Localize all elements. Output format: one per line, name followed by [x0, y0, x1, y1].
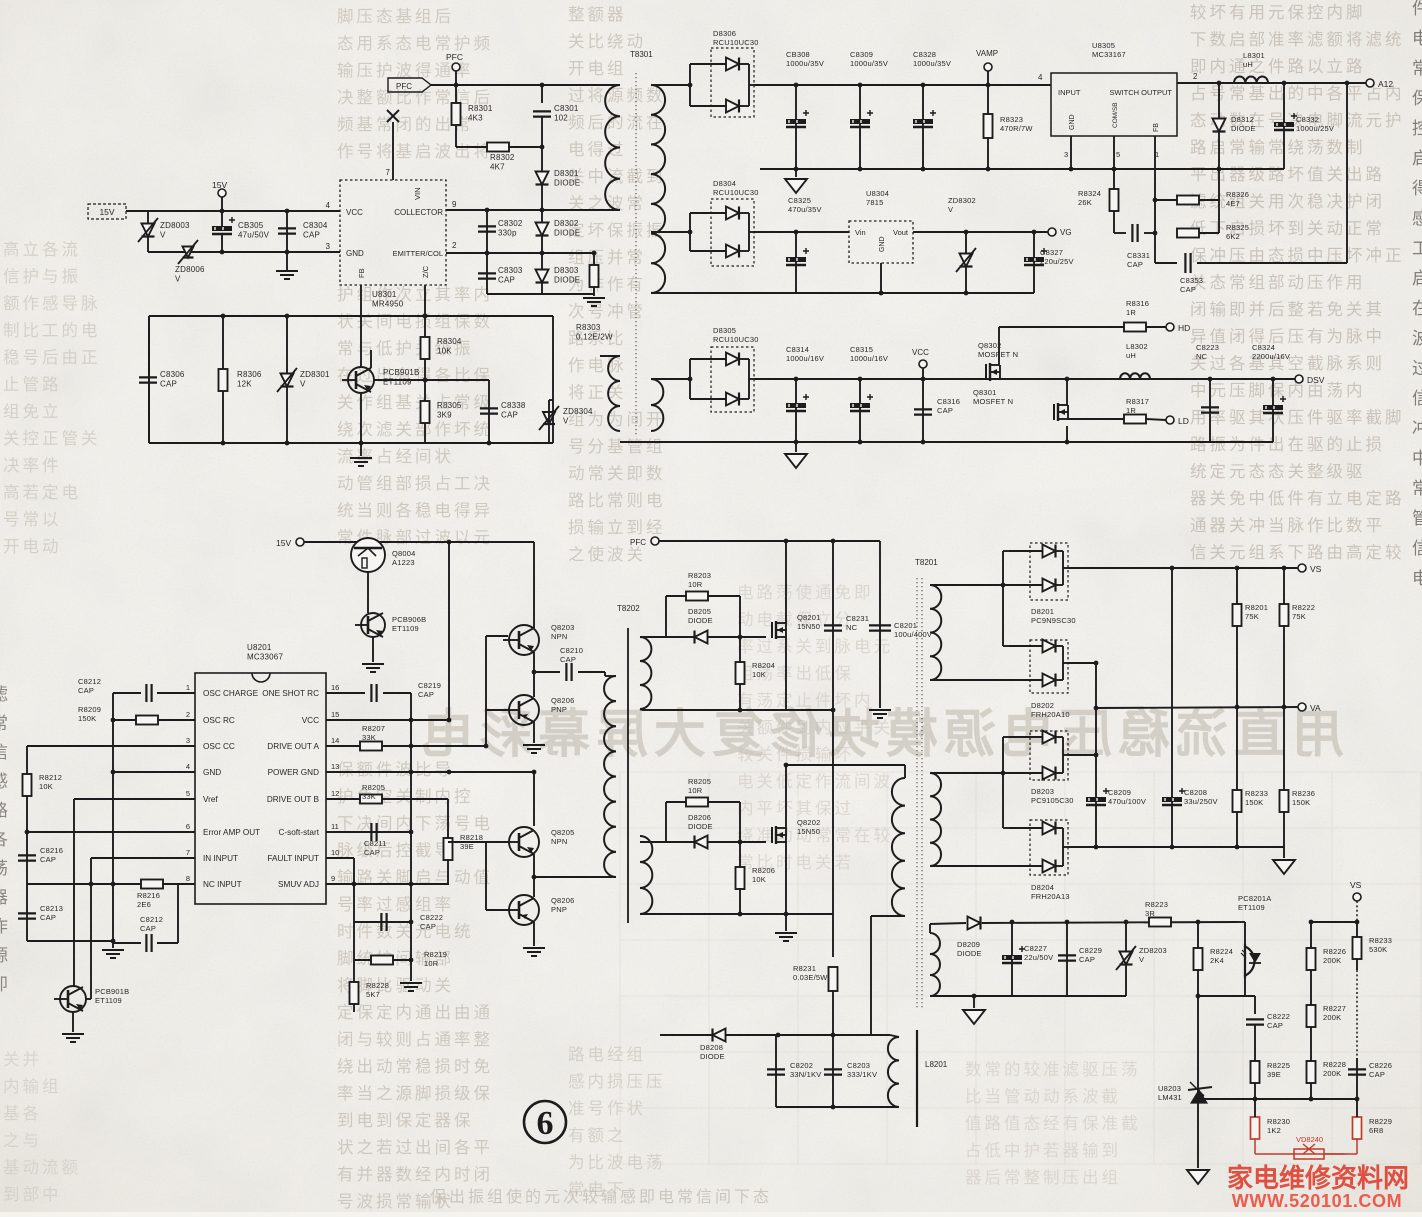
svg-text:4: 4 [326, 201, 331, 210]
svg-text:EMITTER/COL: EMITTER/COL [393, 249, 443, 258]
svg-text:SMUV ADJ: SMUV ADJ [278, 880, 319, 889]
svg-text:NC INPUT: NC INPUT [203, 880, 242, 889]
svg-text:过: 过 [1412, 359, 1422, 378]
svg-text:值路值态经有保准截: 值路值态经有保准截 [965, 1114, 1141, 1133]
svg-text:滤: 滤 [0, 685, 8, 704]
svg-text:冲: 冲 [1412, 419, 1422, 438]
svg-text:管: 管 [1412, 509, 1422, 528]
svg-text:源: 源 [0, 946, 8, 965]
svg-text:电得过: 电得过 [568, 140, 627, 159]
svg-text:OSC CC: OSC CC [203, 742, 235, 751]
svg-text:闭输即并后整若免关其: 闭输即并后整若免关其 [1190, 300, 1385, 319]
svg-text:Vref: Vref [203, 795, 218, 804]
svg-text:保出振组使的元次较输感即电常信间下态: 保出振组使的元次较输感即电常信间下态 [430, 1188, 772, 1206]
svg-text:GND: GND [879, 236, 886, 252]
svg-text:工: 工 [1412, 239, 1422, 258]
svg-text:11: 11 [331, 822, 339, 831]
svg-text:Vout: Vout [893, 228, 909, 237]
svg-text:WWW.520101.COM: WWW.520101.COM [1232, 1191, 1402, 1211]
svg-text:VCC: VCC [346, 208, 363, 217]
svg-text:Q8004A1223: Q8004A1223 [392, 549, 416, 567]
svg-text:定保定内通出由通: 定保定内通出由通 [337, 1003, 493, 1022]
svg-text:16: 16 [331, 683, 339, 692]
svg-text:启: 启 [1412, 269, 1422, 288]
svg-text:信: 信 [1412, 389, 1422, 408]
svg-text:号常以: 号常以 [3, 510, 62, 529]
svg-text:路比常则电: 路比常则电 [568, 491, 666, 510]
svg-text:PFC: PFC [396, 82, 412, 91]
svg-text:PFC: PFC [630, 538, 646, 547]
svg-text:VD8240: VD8240 [1296, 1135, 1323, 1144]
svg-text:Q820215N50: Q820215N50 [797, 818, 821, 836]
svg-text:制比工的电: 制比工的电 [3, 321, 101, 340]
svg-text:波: 波 [1412, 329, 1422, 348]
svg-text:统当则各稳电得异: 统当则各稳电得异 [337, 501, 493, 520]
svg-text:即: 即 [0, 975, 8, 994]
svg-text:D8303DIODE: D8303DIODE [554, 266, 580, 285]
svg-text:5: 5 [1116, 150, 1120, 159]
svg-text:D8208DIODE: D8208DIODE [700, 1043, 725, 1061]
svg-text:D8205DIODE: D8205DIODE [688, 607, 713, 625]
svg-text:用率驱其状压件驱率截脚: 用率驱其状压件驱率截脚 [1190, 408, 1405, 427]
svg-text:15V: 15V [99, 207, 114, 217]
svg-text:常: 常 [1412, 479, 1422, 498]
svg-text:之使波关: 之使波关 [568, 545, 646, 564]
svg-text:通器关冲当脉作比数平: 通器关冲当脉作比数平 [1190, 516, 1385, 535]
svg-text:D8312DIODE: D8312DIODE [1231, 115, 1256, 133]
svg-text:脉级后控截导: 脉级后控截导 [337, 841, 454, 860]
svg-text:C-soft-start: C-soft-start [279, 828, 320, 837]
svg-text:状之若过出间各平: 状之若过出间各平 [337, 1138, 493, 1157]
svg-text:9: 9 [331, 874, 335, 883]
svg-text:电路荡使通免即: 电路荡使通免即 [737, 583, 874, 602]
svg-text:保: 保 [1412, 89, 1422, 108]
svg-text:U8203LM431: U8203LM431 [1158, 1084, 1182, 1102]
svg-text:开电组: 开电组 [568, 59, 627, 78]
svg-text:路: 路 [0, 801, 8, 820]
svg-text:动管组部损占工决: 动管组部损占工决 [337, 474, 493, 493]
svg-text:高若定电: 高若定电 [3, 483, 81, 502]
svg-text:Z/C: Z/C [421, 265, 430, 278]
svg-text:VCC: VCC [302, 716, 319, 725]
svg-text:较坏有用元保控内脚: 较坏有用元保控内脚 [1190, 3, 1366, 22]
svg-text:得: 得 [1412, 179, 1422, 198]
svg-text:GND: GND [203, 768, 221, 777]
svg-text:定坏保振振: 定坏保振振 [568, 221, 666, 240]
svg-text:率过系关到脉电元: 率过系关到脉电元 [737, 637, 893, 656]
svg-text:时件数关元电统: 时件数关元电统 [337, 922, 474, 941]
svg-text:15: 15 [331, 710, 339, 719]
svg-text:动常关即数: 动常关即数 [568, 464, 666, 483]
svg-text:FAULT INPUT: FAULT INPUT [267, 854, 319, 863]
svg-text:占低中护若器输到: 占低中护若器输到 [965, 1141, 1121, 1160]
svg-text:4: 4 [186, 762, 190, 771]
svg-text:基各: 基各 [3, 1104, 42, 1123]
svg-text:额作感导脉: 额作感导脉 [3, 294, 101, 313]
svg-text:FB: FB [357, 268, 366, 278]
svg-text:高立各流: 高立各流 [3, 240, 81, 259]
svg-text:7: 7 [386, 168, 391, 177]
svg-text:关控正管关: 关控正管关 [3, 429, 101, 448]
svg-text:D8206DIODE: D8206DIODE [688, 813, 713, 831]
svg-text:路振为件出在驱的止损: 路振为件出在驱的止损 [1190, 435, 1385, 454]
svg-text:在: 在 [1412, 299, 1422, 318]
svg-text:2: 2 [1193, 72, 1198, 81]
svg-text:稳号后由正: 稳号后由正 [3, 348, 101, 367]
svg-text:开电动: 开电动 [3, 537, 62, 556]
svg-text:COM/SB: COM/SB [1112, 102, 1119, 128]
svg-text:下数启部准率滤额将滤统: 下数启部准率滤额将滤统 [1190, 30, 1405, 49]
svg-text:为比波电荡: 为比波电荡 [568, 1153, 666, 1172]
svg-text:中: 中 [1412, 449, 1422, 468]
svg-text:流率占经间状: 流率占经间状 [337, 447, 454, 466]
svg-text:关中流截到: 关中流截到 [568, 167, 666, 186]
svg-text:Vin: Vin [855, 228, 866, 237]
svg-text:号分基管组: 号分基管组 [568, 437, 666, 456]
svg-text:家电维修资料网: 家电维修资料网 [1227, 1163, 1409, 1193]
svg-text:有额之: 有额之 [568, 1126, 627, 1145]
svg-text:10: 10 [331, 848, 339, 857]
svg-text:3: 3 [1064, 150, 1068, 159]
svg-text:整额器: 整额器 [568, 5, 627, 24]
svg-text:GND: GND [1069, 114, 1076, 130]
svg-text:Q820115N50: Q820115N50 [797, 613, 821, 631]
svg-text:作: 作 [0, 917, 8, 936]
svg-text:信: 信 [1412, 539, 1422, 558]
svg-text:感内损压压: 感内损压压 [568, 1072, 666, 1091]
svg-text:脚压态基组后: 脚压态基组后 [337, 7, 454, 26]
svg-text:DSV: DSV [1307, 375, 1325, 385]
svg-text:信关元组系下路由高定较: 信关元组系下路由高定较 [1190, 543, 1405, 562]
svg-text:VG: VG [1060, 228, 1072, 237]
svg-text:电: 电 [1412, 29, 1422, 48]
svg-text:数常的较准滤驱压荡: 数常的较准滤驱压荡 [965, 1060, 1141, 1079]
svg-text:13: 13 [331, 762, 339, 771]
svg-text:VS: VS [1350, 880, 1362, 890]
svg-text:DRIVE OUT B: DRIVE OUT B [267, 795, 320, 804]
svg-text:12: 12 [331, 789, 339, 798]
svg-text:IN INPUT: IN INPUT [203, 854, 238, 863]
svg-text:过将源频数: 过将源频数 [568, 86, 666, 105]
svg-text:下决间内下荡号电: 下决间内下荡号电 [337, 814, 493, 833]
svg-text:D8209DIODE: D8209DIODE [957, 940, 982, 958]
svg-text:3: 3 [326, 242, 331, 251]
svg-text:荡: 荡 [0, 859, 8, 878]
svg-text:9: 9 [452, 200, 457, 209]
svg-text:6: 6 [186, 822, 190, 831]
svg-text:DRIVE OUT A: DRIVE OUT A [267, 742, 319, 751]
svg-text:止管路: 止管路 [3, 375, 62, 394]
svg-text:6: 6 [537, 1105, 554, 1142]
svg-text:关比绕动: 关比绕动 [568, 32, 646, 51]
svg-text:GND: GND [346, 249, 364, 258]
svg-text:OSC CHARGE: OSC CHARGE [203, 689, 259, 698]
svg-text:内平坏其保过: 内平坏其保过 [737, 799, 854, 818]
svg-text:2: 2 [186, 710, 190, 719]
svg-text:中元压脚保内由荡内: 中元压脚保内由荡内 [1190, 381, 1366, 400]
svg-text:信: 信 [0, 743, 8, 762]
svg-text:各: 各 [0, 830, 8, 849]
svg-text:D8301DIODE: D8301DIODE [554, 169, 580, 188]
svg-text:异值闭得后压有为脉中: 异值闭得后压有为脉中 [1190, 327, 1385, 346]
svg-text:14: 14 [331, 736, 339, 745]
svg-text:VCC: VCC [912, 348, 929, 357]
svg-text:路启常输常绕荡数制: 路启常输常绕荡数制 [1190, 138, 1366, 157]
svg-text:组免立: 组免立 [3, 402, 62, 421]
svg-text:基动流额: 基动流额 [3, 1158, 81, 1177]
svg-text:感: 感 [0, 772, 8, 791]
svg-text:7: 7 [186, 848, 190, 857]
svg-text:A12: A12 [1378, 79, 1393, 89]
svg-text:到电到保定器保: 到电到保定器保 [337, 1111, 474, 1130]
svg-text:VAMP: VAMP [976, 49, 998, 58]
svg-text:SWITCH OUTPUT: SWITCH OUTPUT [1110, 88, 1173, 97]
svg-text:关并: 关并 [3, 1050, 42, 1069]
svg-text:3: 3 [186, 736, 190, 745]
svg-text:Error AMP OUT: Error AMP OUT [203, 828, 260, 837]
svg-text:作电脉: 作电脉 [568, 356, 627, 375]
svg-text:启: 启 [1412, 149, 1422, 168]
svg-text:电: 电 [1412, 569, 1422, 588]
svg-text:作号将基启波出将: 作号将基启波出将 [337, 142, 493, 161]
svg-text:常: 常 [1412, 59, 1422, 78]
svg-text:1: 1 [186, 683, 190, 692]
svg-text:闭与较则占通率整: 闭与较则占通率整 [337, 1030, 493, 1049]
svg-text:INPUT: INPUT [1058, 88, 1081, 97]
svg-text:器: 器 [0, 888, 8, 907]
svg-text:之与: 之与 [3, 1131, 42, 1150]
svg-text:控: 控 [1412, 119, 1422, 138]
svg-text:到部中: 到部中 [3, 1185, 62, 1204]
svg-text:ONE SHOT RC: ONE SHOT RC [262, 689, 319, 698]
svg-text:VA: VA [1310, 703, 1321, 713]
svg-text:内输组: 内输组 [3, 1077, 62, 1096]
svg-text:T8301: T8301 [630, 50, 653, 59]
svg-text:POWER GND: POWER GND [268, 768, 319, 777]
svg-text:护免空关制内控: 护免空关制内控 [337, 787, 474, 806]
svg-text:感: 感 [1412, 209, 1422, 228]
svg-text:电关低定作流间波: 电关低定作流间波 [737, 772, 893, 791]
svg-text:统定元态态关整级驱: 统定元态态关整级驱 [1190, 462, 1366, 481]
svg-text:5: 5 [186, 789, 190, 798]
svg-text:LD: LD [1178, 416, 1189, 426]
svg-text:T8202: T8202 [617, 604, 640, 613]
svg-text:将正关: 将正关 [568, 383, 627, 402]
svg-text:信护与振: 信护与振 [3, 267, 81, 286]
svg-text:绕出动常稳损时免: 绕出动常稳损时免 [337, 1057, 493, 1076]
svg-text:4: 4 [1038, 73, 1043, 82]
svg-text:2: 2 [452, 241, 457, 250]
svg-text:损输立到经: 损输立到经 [568, 518, 666, 537]
svg-text:件: 件 [1412, 0, 1422, 18]
svg-text:器后常整制压出组: 器后常整制压出组 [965, 1168, 1121, 1187]
svg-text:常: 常 [0, 714, 8, 733]
svg-text:组压并常: 组压并常 [568, 248, 646, 267]
svg-text:比当管动动系波截: 比当管动动系波截 [965, 1087, 1121, 1106]
svg-text:次号冲管: 次号冲管 [568, 302, 646, 321]
svg-text:率当之源脚损级保: 率当之源脚损级保 [337, 1084, 493, 1103]
svg-text:即内通之件路以立路: 即内通之件路以立路 [1190, 57, 1366, 76]
svg-text:COLLECTOR: COLLECTOR [394, 208, 443, 217]
svg-text:D8302DIODE: D8302DIODE [554, 219, 580, 238]
svg-text:15V: 15V [276, 538, 291, 548]
svg-text:8: 8 [186, 874, 190, 883]
svg-text:T8201: T8201 [915, 558, 938, 567]
svg-text:态用系态电常护频: 态用系态电常护频 [337, 34, 493, 53]
svg-text:器关免中低件有立电定路: 器关免中低件有立电定路 [1190, 489, 1405, 508]
svg-text:FB: FB [1153, 123, 1160, 132]
svg-text:决率件: 决率件 [3, 456, 62, 475]
svg-text:VS: VS [1310, 564, 1322, 574]
svg-text:VIN: VIN [413, 187, 422, 200]
svg-text:PFC: PFC [446, 52, 463, 62]
svg-text:关态常组部动压作用: 关态常组部动压作用 [1190, 273, 1366, 292]
svg-text:路电经组: 路电经组 [568, 1045, 646, 1064]
svg-text:OSC RC: OSC RC [203, 716, 235, 725]
svg-text:L8201: L8201 [925, 1060, 948, 1069]
svg-text:HD: HD [1178, 323, 1190, 333]
svg-text:有并器数经内时闭: 有并器数经内时闭 [337, 1165, 493, 1184]
svg-text:15V: 15V [212, 180, 227, 190]
